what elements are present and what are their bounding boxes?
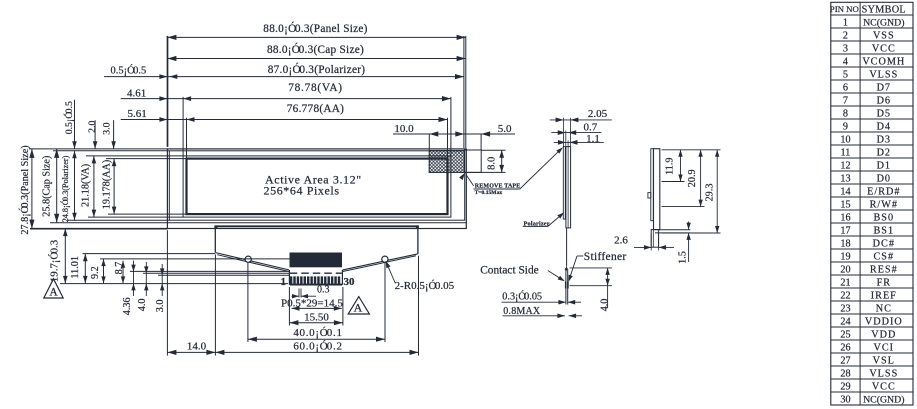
svg-text:17: 17 — [840, 225, 850, 236]
stiffener leader — [568, 256, 577, 282]
side2 glass strip — [654, 149, 660, 230]
svg-text:D3: D3 — [877, 134, 891, 145]
svg-text:22: 22 — [840, 290, 850, 301]
dim 8.0 text — [487, 157, 498, 170]
svg-text:VLSS: VLSS — [869, 69, 898, 80]
svg-text:E/RD#: E/RD# — [867, 186, 900, 197]
dim 24.8 polarizer text (rot) — [60, 155, 70, 222]
svg-text:VCOMH: VCOMH — [862, 56, 905, 67]
svg-text:8.0: 8.0 — [487, 157, 498, 170]
pin 1 label — [280, 276, 286, 288]
svg-text:2: 2 — [843, 30, 848, 41]
svg-text:24.8¡Ó0.3(Polarizer): 24.8¡Ó0.3(Polarizer) — [60, 155, 70, 222]
ext line VA right — [450, 97, 452, 156]
ext line stiffener top left — [130, 270, 289, 272]
svg-text:4.0: 4.0 — [600, 299, 611, 312]
dim 3.0 bottom line — [160, 264, 164, 296]
dim 19.178 line — [112, 159, 117, 215]
svg-text:BS1: BS1 — [874, 225, 895, 236]
svg-text:23: 23 — [840, 303, 850, 314]
dim 8.0 ext top — [481, 149, 505, 151]
ext line FPC left bottom — [214, 255, 216, 356]
dim 0.3 thickness line — [502, 300, 582, 305]
svg-text:5.61: 5.61 — [128, 108, 147, 120]
svg-text:15.50: 15.50 — [304, 311, 329, 323]
FPC right slant inner — [343, 256, 416, 272]
label 2-R0.5 text — [395, 280, 455, 292]
svg-text:3.0: 3.0 — [102, 122, 113, 134]
dim 11.01 text (rot) — [70, 256, 81, 279]
svg-text:VCC: VCC — [872, 43, 896, 54]
stiffener label tick — [577, 255, 583, 257]
dim 88.0 cap size line — [167, 56, 465, 61]
svg-text:SYMBOL: SYMBOL — [862, 5, 906, 16]
svg-text:5.0: 5.0 — [498, 123, 512, 135]
svg-text:RES#: RES# — [870, 264, 898, 275]
svg-text:9.2: 9.2 — [90, 266, 101, 279]
polarizer label — [524, 220, 550, 227]
svg-text:60.0¡Ó0.2: 60.0¡Ó0.2 — [293, 341, 342, 353]
svg-text:78.78(VA): 78.78(VA) — [288, 82, 343, 94]
ext line VA bottom left — [88, 216, 183, 218]
svg-text:0.5¡Ó0.5: 0.5¡Ó0.5 — [111, 65, 147, 77]
ext line FPC corner left — [83, 253, 216, 255]
dim 40.0 line — [248, 337, 385, 342]
dim 11.9 text (rot) — [664, 157, 675, 174]
dim 2.0 line — [93, 120, 98, 149]
svg-text:VDDIO: VDDIO — [865, 316, 903, 327]
svg-text:D6: D6 — [877, 95, 891, 106]
svg-text:R/W#: R/W# — [870, 199, 898, 210]
ext line hole right — [384, 263, 386, 342]
remove tape label — [475, 184, 521, 190]
svg-text:9: 9 — [843, 121, 848, 132]
svg-text:16: 16 — [840, 212, 850, 223]
svg-text:BS0: BS0 — [874, 212, 895, 223]
svg-text:IREF: IREF — [871, 290, 897, 301]
svg-text:2-R0.5¡Ó0.05: 2-R0.5¡Ó0.05 — [395, 280, 455, 292]
svg-text:29.3: 29.3 — [704, 184, 715, 202]
polarizer leader — [548, 212, 565, 226]
svg-text:7: 7 — [843, 95, 848, 106]
dim 2.0 text (rot) — [87, 120, 98, 132]
remove tape leader to hatch — [459, 173, 474, 186]
svg-text:2.6: 2.6 — [614, 235, 628, 247]
svg-text:NC(GND): NC(GND) — [863, 17, 904, 28]
svg-text:1.1: 1.1 — [586, 133, 600, 145]
svg-text:D1: D1 — [877, 160, 891, 171]
dim 21.18 line — [92, 156, 97, 217]
dim 88.0 panel size line — [167, 35, 465, 40]
dim 87.0 polarizer line — [104, 74, 464, 79]
side view FPC tail — [566, 228, 568, 267]
ext line panel bottom left — [30, 228, 167, 230]
dim 0.7 line — [551, 130, 601, 135]
side view glass inner line — [567, 147, 569, 228]
dim 76.778 AA text — [287, 103, 344, 115]
svg-text:21: 21 — [840, 277, 850, 288]
FPC right slant outer — [343, 254, 418, 270]
dim 25.8 line — [54, 149, 59, 223]
active area outline AA (76.778 x 19.178) thick — [187, 159, 448, 215]
remove tape label underline — [473, 188, 519, 190]
svg-text:DC#: DC# — [873, 238, 895, 249]
dim 3.0 top text (rot) — [102, 122, 113, 134]
svg-text:T=0.15Max: T=0.15Max — [475, 190, 503, 196]
svg-text:VLSS: VLSS — [869, 368, 898, 379]
panel glass outline (88.0 x 27.8 front view) — [167, 149, 466, 229]
svg-text:21.18(VA): 21.18(VA) — [81, 164, 92, 207]
ext line panel left bottom — [166, 230, 168, 355]
svg-text:256*64 Pixels: 256*64 Pixels — [264, 184, 340, 198]
VA outline (78.78 x 21.18) — [183, 156, 451, 217]
svg-text:19.178(AA): 19.178(AA) — [101, 160, 112, 210]
svg-text:11: 11 — [841, 147, 851, 158]
svg-text:4: 4 — [843, 56, 848, 67]
dim 20.9 line — [698, 150, 702, 207]
dim 0.5 offset text — [111, 65, 147, 77]
ext line neck left — [288, 287, 290, 326]
active area label text — [265, 173, 362, 187]
FPC left slant inner — [217, 255, 289, 272]
remove tape overhang tab — [464, 150, 481, 172]
dim 29.3 text (rot) — [704, 184, 715, 202]
connector finger comb — [291, 276, 339, 284]
svg-text:D4: D4 — [877, 121, 891, 132]
dim 25.8 cap size text (rot) — [41, 156, 52, 217]
svg-text:11.01: 11.01 — [70, 256, 81, 279]
dim 4.0 bottom line — [144, 262, 148, 296]
dim 4.0 bottom text (rot) — [137, 299, 148, 312]
svg-text:4.61: 4.61 — [127, 87, 146, 99]
svg-text:40.0¡Ó0.1: 40.0¡Ó0.1 — [293, 327, 342, 339]
side2 stiffener tail bottom — [655, 232, 690, 234]
svg-text:0.5¡Ó0.5: 0.5¡Ó0.5 — [63, 101, 75, 134]
svg-text:1: 1 — [843, 17, 848, 28]
FPC neck right edge — [341, 270, 343, 285]
ext line VA top left — [86, 155, 183, 157]
svg-text:28: 28 — [840, 368, 850, 379]
ext line polarizer bottom left — [68, 219, 169, 221]
dim 10.0 / 5.0 line — [393, 131, 515, 136]
dim 4.0 side text (rot) — [600, 299, 611, 312]
dim 10.0 text — [394, 123, 414, 135]
ext line panel right top — [465, 36, 467, 148]
svg-text:2.0: 2.0 — [87, 120, 98, 132]
dim 21.18 VA text (rot) — [81, 164, 92, 207]
stiffener label — [584, 251, 627, 263]
dim 15.50 line — [289, 320, 343, 325]
svg-text:20: 20 — [840, 264, 850, 275]
dim 29.3 line — [715, 150, 719, 233]
dim 88.0 cap size text — [267, 44, 364, 56]
svg-text:12: 12 — [840, 160, 850, 171]
FPC top right corner dot — [416, 225, 419, 228]
svg-text:4.0: 4.0 — [137, 299, 148, 312]
svg-text:A: A — [354, 301, 363, 315]
FPC neck left edge — [288, 270, 290, 285]
datum triangle A left — [44, 279, 63, 299]
dim 1.5 text (rot) — [677, 251, 688, 264]
dim 5.0 text — [498, 123, 512, 135]
cap glass bottom edge line — [167, 222, 466, 224]
ext line AA bottom left — [108, 213, 187, 215]
dim 9.2 line — [101, 259, 105, 283]
dim 2.05 text — [588, 108, 608, 120]
dim 0.3 finger text — [317, 285, 330, 296]
side view glass strip — [566, 147, 571, 228]
svg-text:VCC: VCC — [872, 381, 896, 392]
svg-text:20.9: 20.9 — [687, 169, 698, 187]
svg-text:NC: NC — [876, 303, 892, 314]
dim 4.36 line — [131, 261, 135, 297]
dim 0.8MAX line — [503, 314, 583, 319]
FPC top left corner dot — [214, 225, 217, 228]
side2 stiffener tail top — [659, 229, 691, 231]
dim 1.5 line — [686, 222, 690, 263]
dim 0.8MAX text — [503, 306, 541, 317]
svg-text:88.0¡Ó0.3(Panel Size): 88.0¡Ó0.3(Panel Size) — [263, 23, 367, 35]
svg-text:25.8(Cap Size): 25.8(Cap Size) — [41, 156, 52, 217]
ext line neck right — [342, 287, 344, 326]
side2 tape bump — [648, 193, 651, 198]
dim 76.778 AA / 5.61 line — [121, 117, 448, 122]
ext line holes left — [100, 258, 290, 260]
dim 0.5 top line — [72, 100, 77, 149]
svg-text:29: 29 — [840, 381, 850, 392]
dim 24.8 line — [72, 151, 77, 220]
dim 0.3 thickness text — [502, 290, 542, 302]
svg-text:3: 3 — [843, 43, 848, 54]
dim 2.6 line — [634, 245, 674, 250]
side2 bottom ext line — [662, 232, 721, 234]
ext line AA top left — [106, 158, 187, 160]
dim 20.9 ext — [662, 206, 705, 208]
svg-text:FR: FR — [877, 277, 891, 288]
svg-text:VSS: VSS — [873, 30, 895, 41]
svg-text:27: 27 — [840, 355, 850, 366]
svg-text:0.8MAX: 0.8MAX — [503, 306, 541, 317]
dim 11.9 line — [678, 150, 682, 182]
side2 fold inner line — [652, 230, 654, 248]
svg-text:26: 26 — [840, 342, 850, 353]
svg-text:10: 10 — [840, 134, 850, 145]
dim 27.8 line — [29, 149, 34, 229]
dim 4.0 side ext top — [570, 267, 613, 269]
ext line polarizer top left — [53, 150, 169, 152]
dim 14.0 / 60.0 line — [167, 350, 418, 355]
dim 11.9 ext — [662, 181, 685, 183]
svg-text:Contact Side: Contact Side — [480, 264, 539, 276]
svg-text:88.0¡Ó0.3(Cap Size): 88.0¡Ó0.3(Cap Size) — [267, 44, 364, 56]
svg-text:NC(GND): NC(GND) — [863, 394, 904, 405]
svg-text:4.36: 4.36 — [122, 297, 133, 315]
dim 60.0 text — [293, 341, 342, 353]
ext line fingers top left — [143, 272, 289, 274]
contact side label — [480, 264, 539, 276]
ext line panel top left — [29, 148, 167, 150]
svg-text:1: 1 — [280, 276, 286, 288]
side view ext lines above — [564, 118, 571, 147]
svg-text:18: 18 — [840, 238, 850, 249]
dim 19.178 AA text (rot) — [101, 160, 112, 210]
pin assignment table — [830, 2, 913, 405]
svg-text:VDD: VDD — [871, 329, 896, 340]
svg-text:19.7¡Ó0.3: 19.7¡Ó0.3 — [48, 240, 60, 282]
ext line VA left — [182, 97, 184, 156]
polarizer label underline — [523, 226, 548, 228]
dim 4.0 side ext bottom — [570, 285, 613, 287]
contact side leader — [548, 271, 565, 282]
svg-text:24: 24 — [840, 316, 850, 327]
ext line hatch left — [428, 134, 430, 151]
svg-text:13: 13 — [840, 173, 850, 184]
svg-text:VCI: VCI — [874, 342, 895, 353]
svg-text:0.7: 0.7 — [584, 122, 598, 134]
remove tape hatched zone on panel — [429, 151, 464, 173]
polarizer outline (87.0 x 24.8) — [169, 151, 464, 220]
ext line hole left — [247, 263, 249, 342]
dim 11.01 line — [83, 254, 88, 284]
dim 2.6 text — [614, 235, 628, 247]
datum triangle A bottom — [348, 297, 369, 315]
dim 19.7 text (rot) — [48, 240, 60, 282]
svg-text:D2: D2 — [877, 147, 891, 158]
label 2-R0.5 leader — [386, 261, 396, 283]
svg-text:3.0: 3.0 — [155, 300, 166, 313]
svg-text:11.9: 11.9 — [664, 157, 675, 174]
FPC right edge — [417, 226, 419, 254]
dim 0.7 text — [584, 122, 598, 134]
ext line connector bottom left — [60, 283, 288, 285]
remove tape leader to side view — [520, 147, 563, 189]
dim 2.05 line — [550, 118, 612, 123]
dim P0.5 line — [292, 306, 342, 311]
dim 8.0 line — [499, 150, 504, 172]
dim 3.0 top line — [111, 120, 116, 149]
svg-text:2.05: 2.05 — [588, 108, 608, 120]
coverlay dashed line across neck — [290, 272, 342, 274]
ext line polarizer right top — [463, 36, 465, 148]
svg-text:10.0: 10.0 — [394, 123, 414, 135]
ext line FPC right bottom — [418, 256, 420, 356]
side view FPC+stiffener left line — [565, 269, 567, 305]
dim 0.3 ticks — [299, 289, 301, 298]
dim 4.36 text (rot) — [122, 297, 133, 315]
mount hole left (R0.5) — [245, 256, 251, 262]
svg-text:A: A — [49, 287, 58, 299]
dim 14.0 text — [187, 341, 207, 353]
dim 2.6 ext lines — [651, 234, 658, 250]
dim 1.1 line — [554, 140, 604, 145]
dim 87.0 polarizer text — [268, 64, 366, 76]
dim 8.7 line — [121, 261, 125, 284]
svg-text:76.778(AA): 76.778(AA) — [287, 103, 344, 115]
svg-text:CS#: CS# — [874, 251, 895, 262]
svg-text:14.0: 14.0 — [187, 341, 207, 353]
ext line tape right — [480, 134, 482, 150]
svg-text:VSL: VSL — [873, 355, 895, 366]
dim 40.0 text — [293, 327, 342, 339]
svg-text:Stiffener: Stiffener — [584, 251, 627, 263]
dim 20.9 text (rot) — [687, 169, 698, 187]
svg-text:15: 15 — [840, 199, 850, 210]
dim 5.61 text — [128, 108, 147, 120]
mount hole right (R0.5) — [382, 256, 388, 262]
FPC left edge — [214, 226, 216, 252]
dim 4.0 side line — [605, 268, 609, 308]
side2 polarizer strip — [651, 149, 654, 221]
side view FPC fold blob — [565, 266, 568, 271]
dim 8.0 ext bottom — [465, 171, 506, 173]
dim 88.0 panel size text — [263, 23, 367, 35]
remove tape sub label — [475, 190, 503, 196]
svg-text:87.0¡Ó0.3(Polarizer): 87.0¡Ó0.3(Polarizer) — [268, 64, 366, 76]
FPC left slant outer — [216, 253, 289, 270]
connector fingers bottom edge — [290, 284, 343, 286]
dim 27.8 panel size text (rot) — [19, 145, 31, 234]
dim 9.2 text (rot) — [90, 266, 101, 279]
svg-text:30: 30 — [344, 276, 356, 288]
svg-text:6: 6 — [843, 82, 848, 93]
dim 0.3 line — [292, 294, 317, 298]
ext line AA right — [447, 118, 449, 159]
dim 4.61 text — [127, 87, 146, 99]
svg-text:14: 14 — [840, 186, 850, 197]
side view FPC+stiffener right line — [567, 269, 569, 305]
dim 19.7 line — [63, 229, 68, 284]
svg-text:30: 30 — [840, 394, 850, 405]
svg-text:25: 25 — [840, 329, 850, 340]
svg-text:0.3: 0.3 — [317, 285, 330, 296]
svg-text:PIN NO.: PIN NO. — [830, 4, 861, 14]
stiffener black rectangle — [290, 253, 343, 268]
svg-text:19: 19 — [840, 251, 850, 262]
dim 0.5 top text (rot) — [63, 101, 75, 134]
svg-text:D0: D0 — [877, 173, 891, 184]
svg-text:D7: D7 — [877, 82, 891, 93]
ext line cap bottom left — [50, 222, 167, 224]
ext line 3.0 left — [158, 274, 289, 276]
svg-text:8: 8 — [843, 108, 848, 119]
dim 3.0 bottom text (rot) — [155, 300, 166, 313]
side2 FPC fold — [651, 230, 658, 248]
svg-text:27.8¡Ó0.3(Panel Size): 27.8¡Ó0.3(Panel Size) — [19, 145, 31, 234]
svg-text:1.5: 1.5 — [677, 251, 688, 264]
svg-text:0.3¡Ó0.05: 0.3¡Ó0.05 — [502, 290, 542, 302]
ext line panel left top (thick) — [167, 36, 169, 147]
ext line AA left — [186, 118, 188, 159]
dim P0.5*29=14.5 text — [281, 297, 343, 309]
svg-text:5: 5 — [843, 69, 848, 80]
dim 78.78 VA text — [288, 82, 343, 94]
side2 top ext line — [662, 149, 721, 151]
dim 8.7 text (rot) — [114, 262, 125, 275]
side view polarizer strip — [563, 147, 565, 220]
dim 15.50 text — [304, 311, 329, 323]
pin 30 label — [344, 276, 356, 288]
pixels label text — [264, 184, 340, 198]
dim 78.78 VA / 4.61 line — [121, 96, 451, 101]
svg-text:D5: D5 — [877, 108, 891, 119]
FPC top edge — [215, 225, 418, 227]
dim 1.1 text — [586, 133, 600, 145]
